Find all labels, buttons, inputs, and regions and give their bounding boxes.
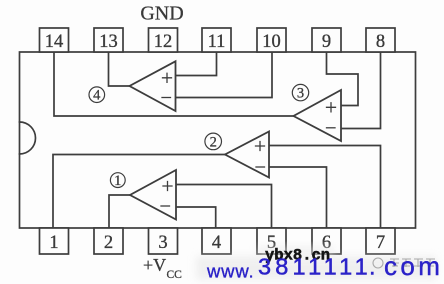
pin 14 xyxy=(40,28,69,52)
IC body xyxy=(20,52,416,228)
svg-text:www.: www. xyxy=(206,261,254,282)
pin 7 xyxy=(366,228,395,254)
svg-text:1: 1 xyxy=(114,173,121,189)
pin 8 xyxy=(366,28,395,52)
pin 3 xyxy=(149,228,178,254)
svg-text:11: 11 xyxy=(208,32,226,52)
svg-text:7: 7 xyxy=(376,233,385,253)
pin 4 xyxy=(202,228,231,254)
wire pin9 to U3 + input xyxy=(327,52,359,106)
pin 1 xyxy=(40,228,69,254)
watermark gray stamp xyxy=(373,258,435,268)
svg-text:3811111: 3811111 xyxy=(258,254,372,280)
comparator U2 xyxy=(225,132,269,178)
pin 12 xyxy=(149,28,178,52)
svg-text:8: 8 xyxy=(376,32,385,52)
pin 5 xyxy=(257,228,286,254)
svg-text:13: 13 xyxy=(99,32,118,52)
svg-text:1: 1 xyxy=(49,233,58,253)
watermark background mottling xyxy=(196,246,436,280)
label circle U2 xyxy=(205,133,222,150)
svg-text:4: 4 xyxy=(212,233,221,253)
pin 10 xyxy=(257,28,286,52)
svg-text:CC: CC xyxy=(167,269,183,281)
wire pin14 to U3 output xyxy=(54,52,294,116)
svg-text:12: 12 xyxy=(154,32,173,52)
pin 11 xyxy=(202,28,231,52)
svg-text:3: 3 xyxy=(158,233,167,253)
wire pin8 to U3 - input xyxy=(341,52,381,129)
wire pin7 to U2 + input xyxy=(269,146,381,229)
comparator U3 xyxy=(294,90,342,141)
svg-text:14: 14 xyxy=(45,32,64,52)
svg-text:2: 2 xyxy=(104,233,113,253)
comparator U4 xyxy=(130,61,176,111)
svg-text:.: . xyxy=(369,254,376,280)
wire pin6 to U2 - input xyxy=(269,167,327,228)
label circle U4 xyxy=(89,87,105,103)
wire pin2 to U1 output xyxy=(109,195,130,228)
svg-text:3: 3 xyxy=(297,86,304,102)
svg-text:GND: GND xyxy=(140,3,183,25)
+Vcc label xyxy=(143,255,182,281)
label circle U1 xyxy=(110,173,125,188)
wire pin5 to U1 + input xyxy=(176,185,272,229)
wire pin13 to U4 output xyxy=(109,52,130,86)
svg-text:+V: +V xyxy=(143,255,166,275)
watermark www 3811111 com xyxy=(206,251,443,282)
pin 13 xyxy=(94,28,123,52)
wire pin10 to U4 - input xyxy=(176,52,273,98)
comparator U1 xyxy=(130,170,176,220)
svg-text:2: 2 xyxy=(210,134,217,150)
svg-text:4: 4 xyxy=(93,88,101,104)
label circle U3 xyxy=(292,84,308,100)
wire pin11 to U4 + input xyxy=(176,52,217,76)
svg-text:9: 9 xyxy=(322,32,331,52)
wire pin4 to U1 - input xyxy=(176,207,216,228)
wire pin1 to U2 output xyxy=(53,155,225,229)
pin 2 xyxy=(94,228,123,254)
pin 9 xyxy=(312,28,341,52)
pin 6 xyxy=(312,228,341,254)
svg-text:com: com xyxy=(384,251,443,281)
notch xyxy=(20,122,36,154)
svg-text:10: 10 xyxy=(262,32,281,52)
